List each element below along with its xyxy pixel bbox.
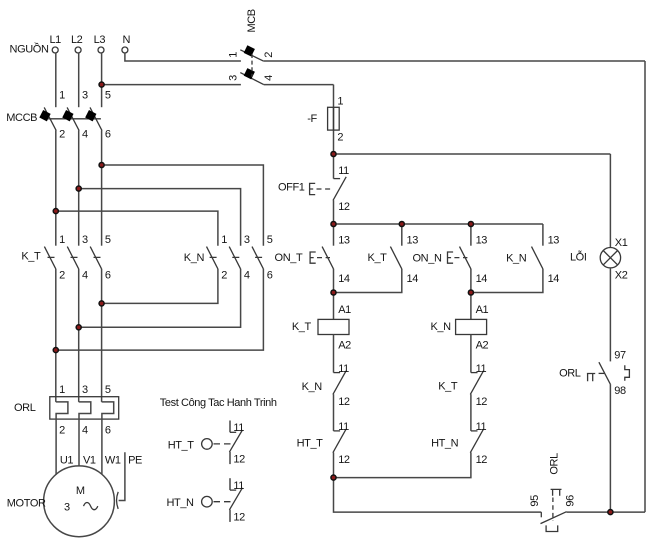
limit switch HT_T (NC with plunger) [168,421,245,466]
svg-text:11: 11 [476,363,487,375]
svg-text:6: 6 [267,269,273,281]
svg-text:4: 4 [244,269,250,281]
svg-text:LỖI: LỖI [570,251,587,264]
wire K_N pole6 output crossover to L1 column [56,269,264,350]
contactor K_T linkage dashes [48,256,101,258]
svg-text:11: 11 [338,363,349,375]
pushbutton ON_N (NO) [413,224,488,293]
svg-text:3: 3 [227,75,239,81]
overload relay ORL label [14,402,36,414]
wire L3 column top [101,53,103,107]
motor M1 circle [44,466,115,537]
svg-text:ORL: ORL [548,453,560,475]
wire L3 to MCB pole 3 [102,84,241,86]
svg-text:3: 3 [82,90,88,102]
lamp LOI branch wire top [609,154,611,248]
wire right edge return [644,61,646,512]
breaker MCCB pole1 square [39,110,50,121]
svg-text:11: 11 [338,421,349,433]
svg-text:97: 97 [614,349,626,361]
svg-text:3: 3 [64,502,70,514]
svg-text:L2: L2 [71,34,83,46]
wire lamp to ORL 97 [609,268,611,362]
svg-text:MCCB: MCCB [6,112,37,124]
svg-text:ON_T: ON_T [275,252,303,264]
wire PE down to motor frame [119,452,125,500]
svg-text:1: 1 [59,384,65,396]
contactor K_T pole 5-6 [90,234,111,281]
overload contact ORL 97-98 (NO) [559,349,629,512]
svg-text:PE: PE [128,454,142,466]
limit switch HT_N (NC with plunger) [166,478,245,523]
overload relay ORL pin labels top [59,384,111,396]
motor label MOTOR [7,498,46,510]
overload contact ORL 95-96 (NC, horizontal) [529,453,645,532]
node lamp bottom junction [608,510,613,515]
svg-text:4: 4 [263,75,275,81]
coil K_T [292,293,351,373]
svg-text:12: 12 [338,396,350,408]
contactor K_N power label [184,252,205,264]
overload relay ORL box [50,397,119,419]
svg-text:-F: -F [307,113,317,125]
wire L1 column top [55,53,57,107]
node merge left junction [331,290,336,295]
node NGUON label [10,42,49,55]
svg-text:13: 13 [407,235,419,247]
wire N to MCB pole 1 [125,53,241,61]
contactor K_N pole 5-6 [252,234,273,281]
lamp LOI [570,237,628,282]
wire left branch down to bottom rail [334,478,542,512]
svg-text:X1: X1 [615,237,628,249]
svg-text:NGUỒN: NGUỒN [10,42,49,55]
breaker MCB label [246,9,258,32]
svg-text:OFF1: OFF1 [278,181,305,193]
svg-text:6: 6 [105,129,111,141]
svg-text:M: M [76,485,85,497]
svg-text:5: 5 [105,384,111,396]
svg-text:MOTOR: MOTOR [7,498,46,510]
svg-text:2: 2 [59,425,65,437]
svg-text:12: 12 [338,454,350,466]
svg-text:13: 13 [338,235,350,247]
svg-text:5: 5 [105,90,111,102]
node L1 feed junction [53,209,58,214]
contactor K_N pole 1-2 [207,234,228,281]
svg-text:1: 1 [337,96,343,108]
node ON_N tap junction [468,221,473,226]
wire L3 feed to K_N pole5 [102,165,264,246]
motor sine symbol [84,503,98,510]
svg-text:3: 3 [82,384,88,396]
wire L2 column K_T output down to ORL [78,269,80,402]
svg-text:4: 4 [82,269,88,281]
svg-text:ON_N: ON_N [413,253,442,265]
svg-text:6: 6 [105,425,111,437]
pushbutton OFF1 (NC) [278,154,350,224]
breaker MCCB label [6,112,37,124]
node L2 feed junction [76,186,81,191]
contact K_T aux (NO) [334,224,419,293]
svg-text:HT_T: HT_T [168,439,195,451]
overload relay ORL heater element pole 1 [56,402,68,475]
svg-text:U1: U1 [60,454,74,466]
svg-text:K_N: K_N [302,381,323,393]
svg-text:12: 12 [476,454,488,466]
svg-text:14: 14 [548,273,560,285]
contactor K_T pole 1-2 [44,234,65,281]
node K_T aux tap junction [399,221,404,226]
wire L1 column MCCB to K_T [55,130,57,245]
wire rung rail [334,223,543,225]
fuse -F [307,85,343,154]
pushbutton ON_T (NO) [275,224,350,293]
overload relay ORL heater element pole 3 [102,402,114,474]
node crossover L3 junction [99,301,104,306]
svg-text:2: 2 [59,129,65,141]
svg-text:13: 13 [476,235,488,247]
svg-text:HT_N: HT_N [431,437,459,449]
node merge right junction [468,290,473,295]
node OFF1 output junction [331,221,336,226]
svg-text:11: 11 [233,422,244,434]
svg-text:11: 11 [476,421,487,433]
breaker MCB pole 1-2 [227,45,275,61]
wire fuse output rail to lamp branch [334,153,611,155]
svg-text:K_N: K_N [184,252,205,264]
label Test Cong Tac Hanh Trinh [160,397,277,409]
terminal L3 [94,34,106,53]
svg-text:14: 14 [476,273,488,285]
svg-text:13: 13 [548,235,560,247]
breaker MCCB pole 5-6 [90,90,111,141]
svg-text:1: 1 [59,234,65,246]
terminal L1 [49,34,61,53]
contactor K_N pole 3-4 [229,234,250,281]
wire L3 column K_T output down to ORL [101,269,103,402]
svg-text:6: 6 [105,269,111,281]
wire K_N pole2 output crossover to L3 column [102,269,218,304]
breaker MCB pole 3-4 [227,68,275,85]
svg-text:4: 4 [82,425,88,437]
breaker MCCB pole2 square [62,110,73,121]
contactor K_T power label [21,251,41,263]
svg-text:2: 2 [221,269,227,281]
svg-text:ORL: ORL [14,402,36,414]
contact K_N aux (NO) [471,224,559,293]
svg-text:96: 96 [565,495,577,507]
node L3 feed junction [99,162,104,167]
svg-text:K_T: K_T [368,252,388,264]
svg-text:11: 11 [338,165,349,177]
wire MCB pole3 output to fuse [264,84,334,86]
svg-text:ORL: ORL [559,367,581,379]
svg-text:K_T: K_T [21,251,41,263]
svg-text:K_N: K_N [430,321,451,333]
svg-text:4: 4 [82,129,88,141]
breaker MCCB pole3 square [85,110,96,121]
svg-text:MCB: MCB [246,9,258,32]
svg-text:1: 1 [227,52,239,58]
overload relay ORL heater element pole 2 [79,402,91,466]
contact K_T interlock (NC) [438,363,487,431]
wire L2 column top [78,53,80,107]
svg-text:A2: A2 [338,339,351,351]
svg-text:L1: L1 [49,34,61,46]
contact K_N interlock (NC) [302,363,350,431]
svg-text:1: 1 [221,234,227,246]
svg-text:2: 2 [59,269,65,281]
terminal L2 [71,34,83,53]
coil K_N [430,293,488,373]
svg-text:1: 1 [59,90,65,102]
breaker MCB mechanical tie [251,54,253,77]
contactor K_N linkage dashes [210,256,263,258]
svg-text:14: 14 [338,273,350,285]
svg-text:A2: A2 [476,339,489,351]
breaker MCCB mechanical tie [48,118,101,120]
motor frame earth arc [117,492,119,509]
wire L2 feed to K_N pole3 [79,189,241,246]
svg-text:12: 12 [233,511,245,523]
svg-text:X2: X2 [615,270,628,282]
overload relay ORL pin labels bottom [59,425,111,437]
breaker MCCB pole 3-4 [67,90,88,141]
svg-text:HT_N: HT_N [166,497,194,509]
motor inner text M 3 [64,485,85,514]
svg-text:L3: L3 [94,34,106,46]
svg-text:V1: V1 [83,454,96,466]
svg-text:12: 12 [233,454,245,466]
svg-text:K_T: K_T [438,380,458,392]
svg-text:N: N [123,34,131,46]
svg-text:Test Công Tac Hanh Trinh: Test Công Tac Hanh Trinh [160,397,277,409]
wire L3 column MCCB to K_T [101,130,103,245]
wire L1 column K_T output down to ORL [55,269,57,402]
svg-text:3: 3 [244,234,250,246]
svg-text:12: 12 [338,201,350,213]
svg-text:5: 5 [105,234,111,246]
svg-text:11: 11 [233,480,244,492]
svg-text:K_N: K_N [506,253,527,265]
svg-text:2: 2 [263,52,275,58]
svg-text:W1: W1 [105,454,121,466]
svg-text:3: 3 [82,234,88,246]
contact HT_T branch (NC) [297,421,350,477]
svg-text:2: 2 [337,131,343,143]
svg-text:98: 98 [614,385,626,397]
wire MCB pole1 output top rail [264,60,645,62]
node crossover L2 junction [76,325,81,330]
node crossover L1 junction [53,348,58,353]
wire L2 column MCCB to K_T [78,130,80,245]
motor terminal labels U1 V1 W1 PE [60,454,142,466]
svg-text:HT_T: HT_T [297,437,324,449]
wire K_N pole4 output crossover to L2 column [79,269,241,328]
contact HT_N branch (NC) [334,421,488,477]
svg-text:A1: A1 [338,304,351,316]
svg-text:5: 5 [267,234,273,246]
wire L1 feed to K_N pole1 [56,211,218,246]
terminal N [122,34,131,53]
svg-text:K_T: K_T [292,321,312,333]
svg-text:14: 14 [407,273,419,285]
node HT rail junction [331,475,336,480]
contactor K_T pole 3-4 [67,234,88,281]
breaker MCCB pole 1-2 [44,90,65,141]
svg-text:95: 95 [529,495,541,507]
svg-text:A1: A1 [476,304,489,316]
node L3 row2 junction [99,82,104,87]
node fuse output junction [331,151,336,156]
svg-text:12: 12 [476,396,488,408]
